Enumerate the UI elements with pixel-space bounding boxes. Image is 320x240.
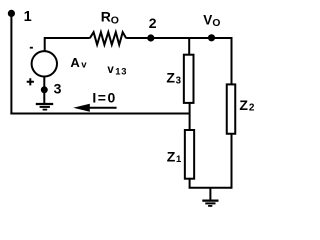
svg-text:v: v xyxy=(107,64,114,76)
svg-text:2: 2 xyxy=(149,15,157,31)
svg-text:1: 1 xyxy=(176,154,182,165)
svg-text:13: 13 xyxy=(115,66,127,77)
svg-text:A: A xyxy=(70,55,80,70)
svg-text:v: v xyxy=(81,60,87,71)
svg-text:Z: Z xyxy=(167,149,176,165)
svg-text:3: 3 xyxy=(54,81,62,97)
svg-text:R: R xyxy=(101,9,111,25)
svg-text:O: O xyxy=(111,15,119,27)
svg-text:O: O xyxy=(212,18,220,29)
svg-text:3: 3 xyxy=(176,76,182,87)
svg-text:1: 1 xyxy=(24,9,32,25)
svg-text:2: 2 xyxy=(249,102,255,113)
svg-text:V: V xyxy=(203,12,212,27)
svg-text:I=0: I=0 xyxy=(92,90,116,106)
svg-text:Z: Z xyxy=(166,70,175,86)
svg-text:Z: Z xyxy=(239,97,248,113)
